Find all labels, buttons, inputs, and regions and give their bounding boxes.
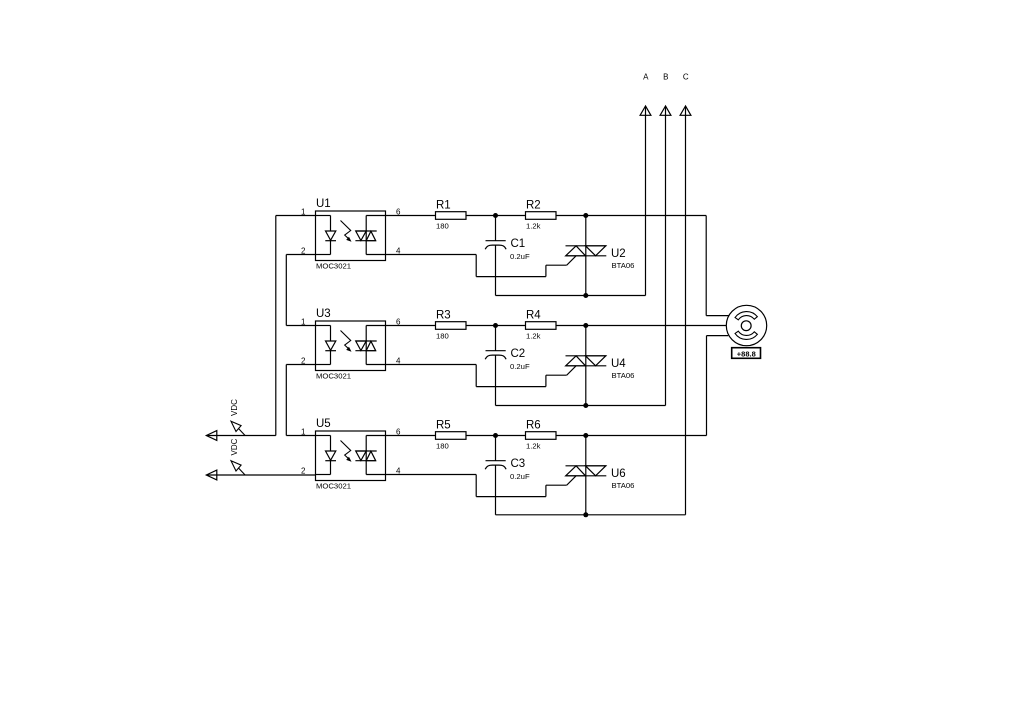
svg-text:U5: U5 [316,418,331,430]
capacitor C3 0.2uF [485,436,530,515]
wire top rail [556,435,707,437]
svg-text:BTA06: BTA06 [612,481,635,490]
svg-text:180: 180 [436,442,449,451]
VDC pointer flag [230,399,245,436]
phase terminal A [640,73,651,116]
VDC pointer flag [230,438,245,475]
U5 photo-triac [355,436,385,475]
wire bottom rail [496,405,666,407]
wire motor bottom feed [707,336,729,436]
motor rpm display +88.8 [732,348,761,359]
svg-text:U2: U2 [611,248,626,260]
svg-text:R4: R4 [526,310,541,322]
resistor R4 1.2k [526,310,557,341]
node U6 bottom junction [583,512,588,517]
resistor R6 1.2k [526,420,557,451]
U3 pin numbers [301,317,401,365]
wire [386,325,436,327]
svg-text:R6: R6 [526,420,541,432]
wire bottom rail [496,295,646,297]
opto-triac U1 body [316,198,386,271]
wire [386,215,436,217]
wire VDC top input [207,435,276,437]
wire motor top feed [706,216,728,316]
svg-text:U6: U6 [611,468,626,480]
capacitor C1 0.2uF [485,216,530,296]
U1 LED [316,216,337,255]
node U2 bottom junction [583,293,588,298]
wire U3 pin4 to U4 gate [386,365,577,387]
U5 light arrow [341,441,351,462]
U3 photo-triac [355,326,385,365]
wire phase A [645,106,647,296]
svg-text:MOC3021: MOC3021 [316,482,351,491]
node R4/U4 junction [583,323,588,328]
wire bottom rail [496,514,686,516]
wire phase C [685,106,687,515]
input terminal VDC [206,431,217,441]
svg-text:C: C [683,73,689,82]
svg-text:R1: R1 [436,200,451,212]
resistor R5 180 [436,420,467,451]
motor M1 3-phase [726,305,766,345]
svg-text:0.2uF: 0.2uF [510,252,530,261]
svg-text:1.2k: 1.2k [526,332,541,341]
svg-text:1.2k: 1.2k [526,442,541,451]
U5 LED [316,436,337,475]
svg-text:C1: C1 [511,238,526,250]
triac U4 BTA06 [566,326,635,406]
opto-triac U5 body [316,418,386,491]
U3 light arrow [341,331,351,352]
svg-text:+88.8: +88.8 [737,350,756,359]
wire top rail [556,215,706,217]
svg-text:B: B [663,73,668,82]
svg-text:2: 2 [301,466,306,475]
svg-text:MOC3021: MOC3021 [316,262,351,271]
svg-text:R3: R3 [436,310,451,322]
svg-text:U1: U1 [316,198,331,210]
phase terminal C [680,73,691,116]
U1 light arrow [341,221,351,242]
U5 pin numbers [301,427,401,475]
resistor R3 180 [436,310,467,341]
capacitor C2 0.2uF [485,326,530,406]
svg-text:C3: C3 [511,458,526,470]
svg-text:1.2k: 1.2k [526,222,541,231]
opto-triac U3 body [316,308,386,381]
svg-text:0.2uF: 0.2uF [510,472,530,481]
wire phase B [665,106,667,406]
input terminal VDC [206,470,217,480]
wire [466,435,526,437]
node R5/R6/C3 junction [493,433,498,438]
U1 photo-triac [355,216,385,255]
svg-text:180: 180 [436,332,449,341]
U3 LED [316,326,337,365]
svg-text:U4: U4 [611,358,626,370]
svg-text:U3: U3 [316,308,331,320]
svg-text:180: 180 [436,222,449,231]
node R6/U6 junction [583,433,588,438]
wire [466,325,526,327]
wire U1 pin2 to U3 pin1 [286,255,315,326]
wire [386,435,436,437]
wire top rail [556,325,726,327]
svg-text:C2: C2 [511,348,526,360]
triac U2 BTA06 [566,216,635,296]
resistor R1 180 [436,200,467,231]
svg-text:BTA06: BTA06 [612,371,635,380]
wire VDC bottom input to U5 pin2 [207,474,316,476]
wire U1 pin4 to U2 gate [386,255,577,277]
triac U6 BTA06 [566,436,635,515]
svg-text:R2: R2 [526,200,541,212]
svg-text:VDC: VDC [230,399,239,416]
svg-text:MOC3021: MOC3021 [316,372,351,381]
wire U3 pin2 to U5 pin1 [286,365,315,436]
wire riser VDC to U1 pin1 [276,216,316,436]
svg-text:0.2uF: 0.2uF [510,362,530,371]
U1 pin numbers [301,207,401,255]
svg-text:A: A [643,73,649,82]
svg-text:VDC: VDC [230,438,239,455]
node R2/U2 junction [583,213,588,218]
svg-text:BTA06: BTA06 [612,261,635,270]
wire U5 pin4 to U6 gate [386,475,577,497]
node U4 bottom junction [583,403,588,408]
svg-text:R5: R5 [436,420,451,432]
wire [466,215,526,217]
resistor R2 1.2k [526,200,557,231]
node R1/R2/C1 junction [493,213,498,218]
node R3/R4/C2 junction [493,323,498,328]
phase terminal B [660,73,671,116]
